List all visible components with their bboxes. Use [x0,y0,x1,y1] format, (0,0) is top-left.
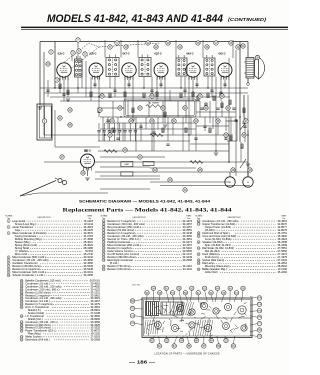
node 29 [150,119,154,123]
leader line [197,295,199,302]
node 3 [55,78,59,82]
node 11 [146,41,150,45]
junction [239,116,240,117]
part row 32 [197,252,287,256]
wire [102,117,104,141]
wire (chassis lead) [188,331,190,333]
wire [43,52,45,135]
capacitor [171,120,174,121]
part row Drive Cord [15,252,94,256]
wire [60,100,200,102]
svg-text:MODELS 41-842, 41-843 AND 41-8: MODELS 41-842, 41-843 AND 41-844 [47,13,224,25]
part row 12 [102,225,192,229]
node 35 [216,119,220,123]
svg-text:PART: PART [124,163,130,166]
junction [98,96,99,97]
wire [44,134,233,136]
leader line [152,291,154,303]
leader line [211,295,213,302]
parts column header [5,215,93,220]
node 23 [98,108,102,112]
part row 4 [7,255,93,259]
part row Cap [15,228,94,232]
tuning gang (chassis) [161,302,183,315]
node 53 [241,44,245,48]
part row 27 [197,222,287,226]
node 25 [118,106,122,110]
part row 45 [20,305,100,309]
node 55 [68,123,72,127]
resistor [229,100,231,104]
wire (chassis lead) [146,328,149,330]
tube socket (chassis) [241,325,247,331]
wire [247,172,249,177]
wire [47,80,49,97]
node 1 loop aerial [42,119,46,123]
wire [230,117,232,140]
callout 90 [224,338,228,342]
wire (chassis lead) [180,330,183,332]
power transformer (chassis) [146,302,159,316]
capacitor [84,150,87,151]
svg-text:23: 23 [103,260,105,262]
leader line [229,291,231,303]
wire [103,123,105,130]
wire (chassis lead) [209,333,212,337]
junction [143,87,144,88]
tube socket (chassis) [238,306,246,314]
wire (chassis lead) [235,325,237,328]
callout 65 [222,291,226,295]
wire (chassis lead) [150,315,152,318]
node 39 [108,133,112,137]
chassis hatched area 3 [144,320,159,334]
wire (chassis lead) [181,317,182,322]
wire [44,106,46,119]
wire [175,40,177,58]
wire [87,170,89,177]
callout 81 [157,344,161,348]
resistor [59,84,61,89]
header rule thick [21,27,288,29]
wire [105,122,196,124]
wire (chassis lead) [188,332,190,336]
chassis hatched area 2 [193,320,213,336]
terminal strip box 2 [121,172,133,176]
capacitor [234,120,237,121]
wire [100,166,150,168]
wire [100,156,165,158]
leader line [225,336,226,338]
leader line [135,299,143,301]
part row 49 [20,326,100,330]
node 12 [154,45,158,49]
wire (chassis lead) [164,309,167,312]
wire [228,141,230,162]
callout 74 [257,302,261,306]
wire [132,78,134,118]
tube socket (chassis) [155,322,162,329]
leader line [250,297,257,298]
resistor [220,92,222,97]
resistor [221,103,223,107]
svg-text:34: 34 [198,263,200,265]
tube socket (chassis) [204,324,211,331]
part row 47 [20,320,100,324]
wire (chassis lead) [201,317,206,320]
wire (chassis lead) [186,315,190,316]
callout 61 [196,291,200,295]
wire (chassis lead) [245,323,248,329]
svg-text:Electrolytic (8-8 mfd.): Electrolytic (8-8 mfd.) [25,338,50,342]
wire [145,117,147,129]
svg-text:30: 30 [198,242,200,244]
wire [196,111,236,113]
wire (chassis lead) [198,322,199,324]
wire [98,77,100,117]
node 13 [166,41,170,45]
output transformer T6 [246,58,254,79]
leader line [185,295,188,302]
wire [150,181,230,183]
junction [207,87,208,88]
resistor [132,108,134,113]
wire [160,185,250,187]
callout 56 [164,286,168,290]
part row 50 [20,329,100,333]
part row Rubber Mountin [15,237,94,241]
wire (chassis lead) [163,321,165,324]
capacitor [106,120,109,121]
node 28 [255,55,259,59]
callout 86 [194,338,198,342]
resistor [112,128,114,132]
capacitor bank C26 [129,131,132,132]
leader line [250,303,257,306]
wire [124,77,126,101]
callout 69 [130,299,134,303]
wire [114,77,116,98]
svg-text:6Q7 G: 6Q7 G [154,53,161,56]
wire [98,123,100,130]
resistor [124,92,126,97]
wire [204,117,206,131]
part row 2 [7,225,93,229]
capacitor [62,94,65,95]
part row 9 [7,270,93,274]
wire (chassis lead) [190,329,193,330]
leader line [179,291,181,303]
wire [38,192,108,194]
capacitor [243,126,246,127]
svg-text:Replacement Parts — Models 41-: Replacement Parts — Models 41-842, 41-84… [63,208,232,214]
wire (chassis lead) [173,315,178,317]
capacitor [139,126,142,127]
wire (chassis lead) [156,328,161,330]
capacitor [195,84,198,85]
part row Spacer (Mtg.) [15,240,94,244]
wire [151,77,153,98]
wire [100,128,196,130]
callout 83 [172,344,176,348]
junction [215,150,216,151]
wire [117,117,119,135]
part row Socket (Octal) [28,311,101,315]
junction [104,134,105,135]
capacitor [113,90,116,91]
wire [247,95,249,176]
capacitor [200,108,203,109]
wire (chassis lead) [169,310,172,313]
resistor [197,96,199,100]
wire [20,193,38,196]
svg-text:32: 32 [198,254,200,256]
part row 36 [20,279,100,283]
part row 11 [102,222,192,226]
resistor [104,150,117,153]
wire [217,123,219,135]
wire [211,77,213,98]
tube V4 6Q7 G [154,63,168,80]
wire [226,120,237,122]
callout 80 [150,338,154,342]
chassis underside diagram [142,298,252,338]
terminal diamond [246,82,249,86]
wire [59,78,61,93]
IF transformer T5 [204,55,215,76]
wire [114,123,116,130]
wire [81,61,83,88]
wire [135,117,137,151]
wire [148,101,150,117]
resistor [150,134,163,137]
capacitor [127,84,130,85]
IF transformer T2 [106,55,119,77]
node 45 [198,168,202,172]
resistor [109,93,111,98]
wire [190,143,229,145]
node 10 [124,45,128,49]
callout 70 [130,306,134,310]
wire (chassis lead) [149,311,152,315]
wire [169,90,171,101]
wire [98,150,229,152]
callout 82 [165,338,169,342]
capacitor [93,84,96,85]
wire [129,123,131,130]
wire [67,78,69,97]
wire [207,77,209,89]
wire [54,42,56,89]
part row 37 [20,281,100,285]
part row 3 [7,231,93,235]
resistor [185,128,187,132]
part row 7 [7,264,93,268]
callout 75 [257,309,261,313]
wire [202,40,204,58]
part row 21 [102,252,192,256]
svg-text:2: 2 [8,227,9,229]
wire [44,92,248,94]
wire [100,107,124,109]
resistor [192,92,194,97]
node 21 [58,116,62,120]
node 54 [100,94,104,98]
node 27 [138,106,142,110]
part row 23 [102,258,192,262]
callout 59 [183,291,187,295]
node 9 [115,41,119,45]
leader line [250,335,257,336]
svg-text:Resistor (100 ohms): Resistor (100 ohms) [107,267,130,271]
part row 15 [102,234,192,238]
leader line [174,336,177,344]
junction [188,134,189,135]
junction [236,120,237,121]
callout 87 [202,344,206,348]
wire (chassis lead) [230,330,232,333]
part row 31 [197,246,287,250]
part row 30 [197,240,287,244]
wire [140,123,142,141]
wire [192,78,194,102]
wire (chassis lead) [202,302,205,305]
callout 91 [231,344,235,348]
tube V5 6K6 G [186,63,200,80]
wire (chassis lead) [219,310,221,312]
wire [172,123,174,135]
wire (chassis lead) [157,312,162,314]
wire (chassis lead) [175,309,180,312]
wire (chassis lead) [230,317,232,322]
part row (8 mfd.) [110,261,119,265]
node 16 [205,45,209,49]
parts column header [100,215,192,220]
part row 22 [102,255,192,259]
node 5 [77,49,81,53]
wire [137,40,139,58]
wire [103,132,105,141]
wire [104,40,106,58]
chassis outline [142,298,252,338]
wire (chassis lead) [200,302,203,308]
node 19 [236,45,240,49]
leader line [135,307,143,310]
svg-text:25: 25 [103,269,105,271]
part row 46 [20,314,100,318]
svg-text:6K7 G: 6K7 G [122,53,129,56]
capacitor [232,108,235,109]
part row 17 [102,240,192,244]
part row 10 [102,219,192,223]
wire [247,78,249,83]
svg-text:SCHEMATIC DIAGRAM — MODELS 41-: SCHEMATIC DIAGRAM — MODELS 41-842, 41-84… [79,200,210,204]
part row Knob (Ivory) [205,255,288,259]
resistor [241,144,243,148]
wire [229,172,231,177]
wire [239,42,241,143]
node 41 [138,155,142,159]
capacitor [194,138,197,139]
tuning gang C1 dashed outline [62,43,99,68]
capacitor [223,84,226,85]
part row 19 [102,246,192,250]
leader line [203,336,205,344]
tube socket (chassis) [200,302,207,309]
IF transformer T4 [176,55,187,76]
node 24 [110,119,114,123]
wire (chassis lead) [150,324,155,325]
wire right rail [247,42,249,58]
leader line [166,336,168,338]
wire [109,77,111,89]
node 56 [224,133,228,137]
part row “C” Washer [15,249,94,253]
svg-text:45: 45 [21,307,23,309]
wire [228,58,230,162]
wire [122,123,124,141]
wire (chassis lead) [189,327,193,329]
wire (chassis lead) [207,309,211,311]
svg-text:Tubular Condenser (.1 mfd.): Tubular Condenser (.1 mfd.) [12,273,45,277]
capacitor [166,144,169,145]
leader line [234,295,237,302]
wire [120,40,122,58]
leader line [159,295,161,302]
wire [180,77,182,89]
junction [151,96,152,97]
leader line [233,336,234,344]
wire [85,61,87,97]
wire (chassis lead) [178,305,183,308]
wire [185,101,187,123]
tuning gang dashed link [99,43,160,47]
wire [188,78,190,152]
part row 43 [20,299,100,303]
wire (chassis lead) [186,333,188,335]
leader line [217,336,219,344]
part row 6 [7,261,93,265]
leader line [187,336,189,344]
leader line [241,291,243,303]
svg-text:3: 3 [8,233,9,235]
IF transformer T3 [139,55,151,77]
wire [112,101,114,123]
wire [71,50,73,61]
capacitor bank C20 [97,131,100,132]
callout 77 [257,321,261,325]
part row (41-844) [205,228,288,232]
wire [190,117,192,135]
svg-text:1: 1 [8,221,9,223]
wire (chassis lead) [221,320,223,324]
part row 48 [20,323,100,327]
callout 57 [170,291,174,295]
wire chassis partition [142,317,252,319]
wire [98,140,190,142]
node 15 [196,41,200,45]
part row 40 [20,290,100,294]
part row 52 [20,338,100,342]
node 30 [161,106,165,110]
tube V1 6J8 G [57,63,71,80]
capacitor bank C25 [123,131,126,132]
wire [95,178,160,180]
callout 85 [187,344,191,348]
node 48 [231,168,235,172]
part row 28 [197,231,287,235]
wire [100,188,150,190]
